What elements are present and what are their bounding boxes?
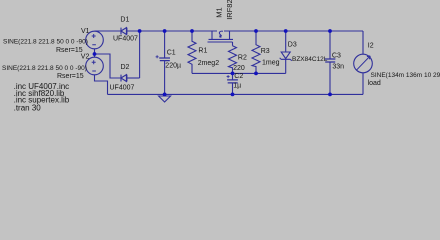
- svg-text:Rser=15: Rser=15: [56, 47, 83, 54]
- mosfet M1: [212, 31, 230, 39]
- diode D1: [121, 28, 127, 35]
- resistor R2: [229, 46, 237, 74]
- svg-text:C3: C3: [332, 53, 341, 60]
- capacitor C2: [232, 73, 234, 80]
- resistor R1: [188, 31, 196, 73]
- svg-text:BZX84C12L: BZX84C12L: [292, 56, 328, 63]
- wire top rail left V1 to D1: [95, 30, 122, 32]
- svg-text:Rser=15: Rser=15: [57, 73, 84, 80]
- svg-text:R2: R2: [238, 54, 247, 61]
- wire M1 gate lead: [232, 42, 234, 46]
- wire mid gate-divider node: [192, 72, 286, 74]
- node dot C3 bottom: [328, 93, 332, 97]
- wire V2 bottom to ground rail: [95, 75, 108, 95]
- svg-text:C1: C1: [167, 49, 176, 56]
- voltage source V2: [86, 57, 104, 75]
- svg-text:M1: M1: [215, 7, 224, 17]
- svg-text:R1: R1: [198, 48, 207, 55]
- wire I2 top lead: [362, 31, 364, 54]
- svg-text:SINE(134m 136m 10 29): SINE(134m 136m 10 29): [371, 72, 440, 79]
- node dot R2 bottom: [231, 72, 235, 76]
- node dot R1 top: [190, 29, 194, 33]
- wire top rail D1 cathode to M1 drain: [127, 30, 217, 32]
- svg-text:D1: D1: [120, 16, 129, 23]
- svg-text:I2: I2: [368, 43, 374, 50]
- wire I2 bottom lead: [362, 73, 364, 95]
- svg-text:R3: R3: [261, 48, 270, 55]
- svg-text:SINE(221.8 221.8 50 0 0 -90): SINE(221.8 221.8 50 0 0 -90): [3, 39, 88, 46]
- wire V1-V2 link: [94, 49, 96, 57]
- svg-text:IRF820: IRF820: [225, 0, 234, 20]
- current source I2: [354, 54, 373, 73]
- svg-text:UF4007: UF4007: [110, 85, 135, 92]
- svg-text:2meg2: 2meg2: [198, 60, 220, 67]
- wire node A: V1/V2 midpoint to D2 anode: [95, 54, 122, 78]
- node dot R3 bottom: [254, 72, 258, 76]
- svg-text:D2: D2: [121, 64, 130, 71]
- svg-text:.tran 30: .tran 30: [14, 103, 42, 112]
- zener diode D3: [285, 31, 287, 52]
- svg-text:220µ: 220µ: [165, 63, 181, 70]
- node dot V1-V2 midpoint: [93, 52, 97, 56]
- capacitor C1: [164, 31, 166, 58]
- diode D2: [121, 75, 127, 82]
- svg-text:220: 220: [233, 65, 245, 72]
- voltage source V1: [86, 31, 104, 49]
- node dot D1 cathode: [138, 29, 142, 33]
- ground: [159, 94, 171, 102]
- node dot R3 top: [254, 29, 258, 33]
- svg-text:load: load: [368, 80, 381, 87]
- wire D1-D2 cathode link: [139, 31, 141, 78]
- svg-text:V2: V2: [81, 53, 90, 60]
- svg-text:C2: C2: [234, 73, 243, 80]
- svg-text:V1: V1: [81, 28, 90, 35]
- node dot D3 top: [284, 29, 288, 33]
- capacitor C3: [329, 31, 331, 59]
- svg-text:SINE(221.8 221.8 50 0 0 -90): SINE(221.8 221.8 50 0 0 -90): [2, 65, 87, 72]
- node dot C1 top: [163, 29, 167, 33]
- wire bottom rail: [108, 93, 364, 95]
- wire top rail M1 source to I2 corner: [224, 30, 363, 32]
- resistor R3: [252, 31, 260, 73]
- svg-text:33n: 33n: [332, 63, 344, 70]
- svg-text:UF4007: UF4007: [113, 35, 138, 42]
- svg-text:D3: D3: [288, 41, 297, 48]
- svg-text:1µ: 1µ: [233, 82, 241, 89]
- node dot ground: [163, 93, 167, 97]
- node dot C2 bottom: [231, 93, 235, 97]
- svg-text:1meg: 1meg: [262, 59, 280, 66]
- wire D2 cathode lead: [127, 77, 139, 79]
- node dot C3 top: [328, 29, 332, 33]
